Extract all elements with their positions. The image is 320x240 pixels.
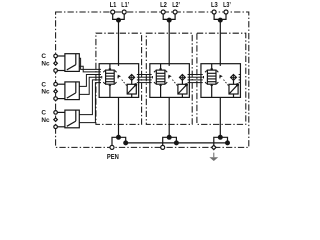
wire signal bundle module 1 to module 2 bbox=[139, 74, 150, 76]
remote contact S3 switch bbox=[75, 110, 77, 121]
svg-text:PEN: PEN bbox=[107, 152, 119, 161]
remote contact S2 box bbox=[65, 82, 79, 100]
wire contact lead 5 to module 1 bbox=[79, 80, 101, 115]
wire equipotential bus bbox=[126, 142, 228, 144]
node junction module 2 bottom bbox=[167, 135, 171, 139]
trigger arrow module 2 bbox=[168, 75, 171, 78]
disconnector module 2 bbox=[178, 84, 187, 94]
disconnector module 3 bottom lead bbox=[233, 94, 235, 97]
wire contact lead 1 to module 1 bbox=[79, 58, 101, 69]
node junction module 3 bottom bbox=[218, 135, 222, 139]
node junction module 1 bottom bbox=[117, 135, 121, 139]
spark gap F1 electrode stack bbox=[106, 70, 115, 84]
trigger arrow module 1 bbox=[118, 75, 121, 78]
indicator lead module 1 bbox=[131, 80, 133, 84]
terminal PEN bbox=[110, 145, 114, 149]
svg-text:Nc: Nc bbox=[41, 89, 50, 96]
spark gap F3 encapsulation (dashed ring) bbox=[204, 69, 220, 85]
remote contact S3 box bbox=[65, 110, 79, 128]
wire feed L3 to module 3 bbox=[219, 19, 221, 63]
disconnector module 1 bbox=[127, 84, 136, 94]
node junction module 3 on bus bbox=[226, 141, 230, 145]
terminal mid 1 (diamond) bbox=[54, 62, 58, 66]
terminal Nc3 bbox=[54, 125, 58, 129]
thermal link module 2 (dashed) bbox=[172, 80, 177, 87]
svg-text:L3: L3 bbox=[211, 2, 218, 9]
disconnector module 1 bottom lead bbox=[131, 94, 133, 97]
terminal mid 2 (diamond) bbox=[54, 90, 58, 94]
spark gap F3 bottom lead bbox=[211, 84, 213, 97]
svg-text:L1’: L1’ bbox=[121, 2, 129, 9]
wire C2 to contact bbox=[57, 83, 65, 85]
wire contact lead 6 to module 1 bbox=[79, 83, 101, 123]
wire contact lead 3 to module 1 bbox=[79, 75, 101, 87]
node junction module 1 on bus bbox=[124, 141, 128, 145]
terminal L1 bbox=[111, 10, 115, 14]
thermal link module 1 (dashed) bbox=[122, 80, 127, 87]
svg-text:C: C bbox=[41, 81, 46, 88]
wire contact lead 2 to module 1 bbox=[79, 66, 101, 72]
wire feed L1 to module 1 bbox=[118, 19, 120, 63]
terminal C1 bbox=[54, 54, 58, 58]
node junction L1 bridge bbox=[117, 18, 121, 22]
surge arrester module 2 body bbox=[150, 64, 190, 98]
thermal link module 3 (dashed) bbox=[224, 80, 229, 87]
wire module 3 earth-side down lead bbox=[219, 97, 221, 137]
spark gap F3 electrode stack bbox=[207, 70, 216, 84]
wire bridge L2-L2p bbox=[163, 14, 175, 19]
svg-text:C: C bbox=[41, 53, 46, 60]
status indicator module 3 bbox=[231, 75, 237, 81]
wire module 2 to bottom terminal bbox=[163, 137, 170, 145]
wire Nc3 to contact bbox=[57, 126, 65, 128]
terminal L1p bbox=[122, 10, 126, 14]
indicator lead module 2 bbox=[181, 80, 183, 84]
remote contact S1 switch bbox=[75, 54, 77, 65]
node junction module 2 on bus bbox=[175, 141, 179, 145]
spark gap F2 encapsulation (dashed ring) bbox=[152, 69, 168, 85]
arrester module 2 enclosure (dash-dot) bbox=[146, 33, 192, 124]
spark gap F1 top lead bbox=[109, 64, 111, 70]
spark gap F1 bottom lead bbox=[109, 84, 111, 97]
terminal L2 bbox=[161, 10, 165, 14]
indicator lead module 3 bbox=[233, 80, 235, 84]
spark gap F2 top lead bbox=[160, 64, 162, 70]
svg-text:L2: L2 bbox=[160, 2, 167, 9]
trigger arrow module 3 bbox=[220, 75, 223, 78]
disconnector module 2 bottom lead bbox=[181, 94, 183, 97]
remote contact S2 switch bbox=[75, 82, 77, 93]
wire module 3 to equipotential bus bbox=[220, 137, 227, 143]
terminal Nc1 bbox=[54, 69, 58, 73]
device enclosure (dash-dot outline) bbox=[56, 12, 249, 147]
terminal Nc2 bbox=[54, 97, 58, 101]
wire module 1 to equipotential bus bbox=[119, 137, 126, 143]
wire Nc1 to contact bbox=[57, 70, 65, 72]
svg-text:Nc: Nc bbox=[41, 61, 50, 68]
wire module 2 earth-side down lead bbox=[168, 97, 170, 137]
terminal C3 bbox=[54, 111, 58, 115]
wire module 1 earth-side down lead bbox=[118, 97, 120, 137]
spark gap F3 top lead bbox=[211, 64, 213, 70]
wire C3 to contact bbox=[57, 111, 65, 113]
surge arrester module 1 body bbox=[99, 64, 138, 98]
wire module 1 to bottom terminal bbox=[112, 137, 119, 145]
terminal mid 3 (diamond) bbox=[54, 118, 58, 122]
status indicator module 1 bbox=[129, 75, 135, 81]
surge arrester module 3 body bbox=[201, 64, 241, 98]
wire Nc2 to contact bbox=[57, 98, 65, 100]
svg-text:L1: L1 bbox=[110, 2, 117, 9]
spark gap F2 electrode stack bbox=[156, 70, 165, 84]
ground electrode symbol bbox=[213, 153, 215, 158]
svg-text:C: C bbox=[41, 110, 46, 117]
status indicator module 2 bbox=[180, 75, 186, 81]
node junction L2 bridge bbox=[167, 18, 171, 22]
wire C1 to contact bbox=[57, 55, 65, 57]
terminal L3 bbox=[212, 10, 216, 14]
arrester module 1 enclosure (dash-dot) bbox=[96, 33, 142, 124]
wire module 3 to bottom terminal bbox=[214, 137, 221, 145]
node junction L3 bridge bbox=[218, 18, 222, 22]
spark gap F1 encapsulation (dashed ring) bbox=[102, 69, 118, 85]
arrester module 3 enclosure (dash-dot) bbox=[197, 33, 246, 124]
svg-text:L2’: L2’ bbox=[172, 2, 180, 9]
svg-text:L3’: L3’ bbox=[223, 2, 231, 9]
terminal L3p bbox=[224, 10, 228, 14]
wire contact lead 4 to module 1 bbox=[79, 77, 101, 94]
spark gap F2 bottom lead bbox=[160, 84, 162, 97]
wire bridge L3-L3p bbox=[214, 14, 226, 19]
wire bridge L1-L1p bbox=[113, 14, 125, 19]
svg-text:Nc: Nc bbox=[41, 117, 50, 124]
remote contact S1 box bbox=[65, 54, 79, 72]
wire module 2 to equipotential bus bbox=[169, 137, 176, 143]
wire signal bundle module 2 to module 3 bbox=[189, 74, 201, 76]
terminal L2p bbox=[173, 10, 177, 14]
terminal N/PE module 2 bbox=[161, 145, 165, 149]
terminal earth (diamond) bbox=[212, 145, 216, 149]
disconnector module 3 bbox=[229, 84, 238, 94]
terminal C2 bbox=[54, 82, 58, 86]
wire feed L2 to module 2 bbox=[168, 19, 170, 63]
signal stubs inside modules bbox=[99, 74, 101, 76]
